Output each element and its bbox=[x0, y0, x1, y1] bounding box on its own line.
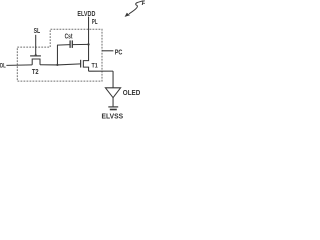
gate contact triangle of T2 bbox=[34, 53, 37, 55]
svg-text:ELVSS: ELVSS bbox=[102, 112, 124, 121]
junction node A dot bbox=[56, 64, 58, 66]
wire DL data line bbox=[6, 64, 32, 67]
svg-text:SL: SL bbox=[34, 26, 41, 35]
transistor T1 channel bump bbox=[83, 61, 89, 68]
power symbol ELVSS bar 2 bbox=[110, 109, 117, 111]
svg-text:Cst: Cst bbox=[65, 31, 73, 40]
arrowhead of pointer P bbox=[125, 13, 130, 17]
wire OLED cathode bbox=[112, 98, 114, 107]
diode OLED triangle bbox=[105, 88, 120, 98]
svg-text:T2: T2 bbox=[32, 67, 39, 76]
pixel circuit dashed boundary PC bbox=[17, 29, 102, 81]
svg-text:P: P bbox=[142, 0, 145, 7]
wire Cst right lead bbox=[72, 43, 88, 45]
gate bar of T1 bbox=[80, 60, 82, 68]
wire T1 source to OLED horizontal bbox=[89, 70, 114, 72]
gate bar of T2 bbox=[30, 55, 41, 57]
transistor T2 channel bump bbox=[32, 59, 40, 65]
capacitor Cst right plate bbox=[71, 40, 73, 48]
wire node A: T2 drain to T1 gate bbox=[40, 64, 81, 65]
capacitor Cst left plate bbox=[69, 40, 71, 48]
wire SL scan line vertical bbox=[35, 35, 37, 55]
PC leader line bbox=[102, 50, 113, 52]
svg-text:ELVDD: ELVDD bbox=[77, 11, 95, 18]
pixel pointer arrow P bbox=[129, 1, 143, 14]
junction dot Cst to PL bbox=[87, 43, 89, 45]
wire OLED anode vertical bbox=[112, 71, 114, 88]
svg-text:PL: PL bbox=[92, 19, 98, 26]
wire riser node A to Cst bbox=[56, 45, 58, 65]
wire PL power line vertical bbox=[88, 17, 90, 61]
power symbol ELVSS bar 1 bbox=[108, 106, 118, 108]
svg-text:T1: T1 bbox=[92, 62, 99, 69]
wire Cst left lead bbox=[57, 44, 70, 47]
svg-text:DL: DL bbox=[0, 63, 6, 70]
wire T1 source down bbox=[88, 67, 90, 71]
svg-text:PC: PC bbox=[115, 47, 123, 56]
svg-text:OLED: OLED bbox=[123, 90, 141, 97]
